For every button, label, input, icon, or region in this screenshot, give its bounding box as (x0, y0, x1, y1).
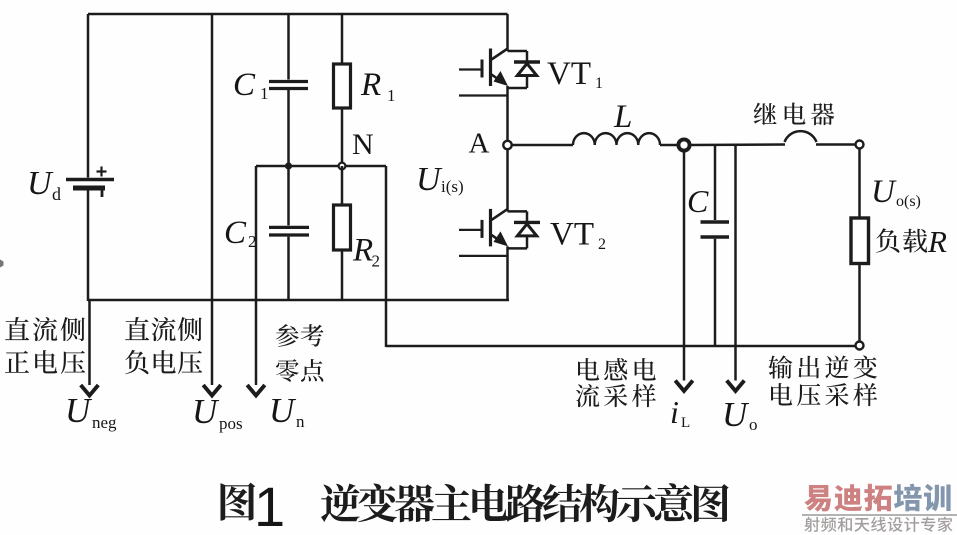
svg-text:o: o (749, 415, 758, 434)
svg-text:U: U (722, 395, 750, 434)
svg-text:L: L (613, 99, 632, 135)
svg-text:U: U (416, 161, 443, 198)
svg-text:neg: neg (92, 413, 117, 432)
svg-text:U: U (65, 391, 93, 430)
svg-text:i: i (670, 394, 679, 430)
svg-text:R: R (360, 67, 381, 103)
svg-text:VT: VT (550, 217, 594, 253)
svg-text:R: R (352, 233, 373, 269)
svg-text:VT: VT (547, 56, 591, 92)
svg-text:U: U (269, 391, 297, 430)
svg-text:i(s): i(s) (441, 177, 464, 196)
svg-text:1: 1 (254, 475, 285, 535)
svg-text:1: 1 (387, 86, 396, 105)
svg-text:N: N (352, 128, 374, 161)
svg-text:2: 2 (598, 236, 606, 253)
svg-text:C: C (233, 67, 256, 103)
svg-text:A: A (469, 128, 490, 160)
svg-text:L: L (681, 415, 690, 431)
svg-text:o(s): o(s) (896, 193, 921, 210)
svg-text:2: 2 (248, 232, 257, 251)
svg-text:n: n (296, 412, 305, 431)
svg-text:U: U (192, 392, 220, 431)
svg-text:R: R (927, 224, 947, 259)
svg-text:U: U (871, 174, 897, 210)
svg-text:1: 1 (595, 75, 603, 92)
svg-text:U: U (27, 165, 54, 202)
svg-text:C: C (224, 215, 247, 251)
svg-text:d: d (52, 184, 61, 204)
svg-text:C: C (687, 183, 709, 219)
svg-text:2: 2 (372, 252, 381, 271)
svg-text:pos: pos (219, 414, 243, 433)
svg-text:1: 1 (260, 84, 269, 103)
